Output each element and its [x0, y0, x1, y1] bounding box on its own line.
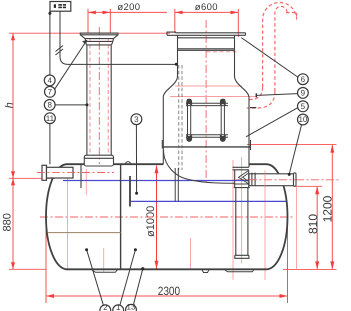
shoulder left: [163, 76, 177, 97]
tank centerline: [40, 216, 293, 218]
880 bottom arrow: [11, 262, 15, 269]
water level 1: [63, 180, 248, 182]
circle 3: [131, 114, 142, 125]
svg-text:7: 7: [48, 88, 53, 97]
tee chevron 2: [243, 173, 249, 181]
riser pipe right wall: [110, 45, 112, 155]
lid bottom line: [167, 34, 246, 36]
riser pipe left wall: [86, 45, 88, 155]
extension line x86: [85, 169, 87, 195]
svg-text:2: 2: [103, 303, 108, 311]
riser ring side right: [112, 39, 114, 45]
circle 11: [45, 113, 56, 124]
h dimension line: [12, 33, 14, 178]
h bottom arrow: [11, 171, 15, 178]
svg-text:5: 5: [301, 102, 306, 111]
leader line below circles to tank: [49, 124, 51, 165]
vent lower weld tick: [250, 107, 256, 109]
drop pipe foot: [235, 255, 249, 258]
inlet drop line: [80, 164, 82, 188]
svg-text:ø200: ø200: [117, 2, 140, 13]
svg-text:10: 10: [298, 115, 307, 124]
riser ring 1: [85, 38, 114, 40]
leader line from box (curved): [60, 11, 176, 64]
svg-text:6: 6: [301, 75, 306, 84]
circle 7: [45, 86, 56, 97]
leader to circle 9: [257, 94, 298, 96]
lid top line: [176, 32, 246, 34]
leader to bottom circle 1: [120, 250, 135, 306]
leader to bottom circle 2: [87, 250, 104, 306]
circle 4: [44, 75, 55, 86]
dot at end of curved leader: [175, 63, 178, 66]
outlet tee centerline x241: [241, 157, 243, 264]
lifting lug on tank top: [125, 162, 130, 165]
body left wall: [162, 97, 164, 164]
riser ring side left: [85, 39, 86, 45]
svg-text:13: 13: [127, 303, 136, 311]
inlet pipe centerline: [37, 172, 114, 174]
tank top right segment and right head: [249, 164, 288, 269]
tee left wall: [234, 170, 236, 188]
outlet pipe body: [249, 174, 294, 186]
clamp ring line 2: [178, 49, 235, 51]
svg-text:ø1000: ø1000: [145, 206, 157, 237]
water level 2: [130, 200, 287, 202]
o200 dimension: [88, 9, 167, 33]
right foot: [250, 140, 252, 150]
body right wall: [248, 97, 250, 167]
gooseneck end face: [286, 12, 297, 14]
cap right skirt: [114, 35, 119, 39]
neck rim under lid: [178, 37, 235, 39]
880 top arrow: [11, 178, 15, 185]
inlet centerline over pipe: [37, 172, 114, 174]
inlet flange: [42, 165, 47, 180]
hidden tube dashed right: [181, 65, 183, 170]
bolt head bottom-right: [220, 135, 226, 142]
svg-text:11: 11: [46, 114, 55, 123]
saddle support left: [92, 270, 118, 272]
left foot: [161, 140, 163, 149]
circle 8: [44, 100, 55, 111]
main baffle: [120, 164, 122, 268]
circle 10: [298, 114, 309, 125]
tank bottom left reference line: [9, 268, 46, 270]
svg-text:880: 880: [2, 213, 14, 231]
svg-text:9: 9: [301, 89, 306, 98]
tank bottom: [67, 268, 267, 270]
extension line x190: [190, 238, 192, 269]
outlet drop pipe right: [247, 188, 249, 256]
outlet drop pipe left: [235, 188, 237, 256]
gooseneck elbow outer: [247, 87, 263, 100]
gooseneck outer wall: [263, 3, 297, 88]
outlet pipe centerline: [236, 179, 339, 181]
saddle centerline x103: [103, 248, 105, 273]
svg-text:ø600: ø600: [195, 2, 218, 13]
body bottom flange: [162, 146, 250, 148]
drop tube wall 1: [174, 168, 176, 201]
circle 13 bottom: [126, 304, 137, 311]
lid left lip: [167, 32, 176, 35]
hidden tube dashed left: [178, 65, 180, 170]
gooseneck elbow inner: [247, 92, 275, 109]
tee right wall: [248, 170, 250, 188]
o1000 dimension: [156, 166, 158, 269]
break symbol: [56, 46, 64, 56]
svg-text:3: 3: [134, 115, 139, 124]
svg-text:4: 4: [47, 76, 52, 85]
leader from circle 3: [135, 125, 137, 194]
circle 6: [298, 74, 309, 85]
leader to circle 7: [54, 40, 87, 90]
leader from circle 10: [289, 125, 301, 174]
extension line x264: [264, 171, 266, 281]
left channel: [187, 99, 189, 141]
svg-text:2300: 2300: [158, 284, 181, 298]
tank shell left head: [46, 164, 85, 269]
label box text marks: [54, 4, 66, 8]
short baffle plate: [129, 176, 131, 207]
sludge line (brown): [48, 232, 121, 234]
riser cap plate: [80, 33, 118, 35]
o600 dimension: [175, 9, 239, 37]
svg-text:1: 1: [116, 303, 121, 311]
riser socket ring: [84, 157, 113, 159]
outlet branch socket: [251, 173, 253, 186]
svg-text:810: 810: [306, 214, 320, 234]
drop tube wall 2: [177, 168, 179, 201]
leader to circle 5: [246, 108, 298, 137]
gooseneck inner wall: [275, 6, 287, 91]
label box: [50, 2, 71, 12]
extension line x233: [232, 160, 234, 280]
ground reference line: [9, 32, 170, 34]
svg-text:8: 8: [47, 101, 52, 110]
tank top middle segment: [114, 163, 164, 165]
880 dimension line: [12, 178, 14, 269]
red line across riser y96.5: [170, 96, 256, 98]
circle 1 bottom: [113, 305, 124, 311]
right channel: [220, 99, 222, 141]
neck left wall: [177, 35, 179, 76]
h top arrow: [11, 33, 15, 40]
inlet invert reference line: [9, 177, 55, 179]
riser socket: [84, 155, 113, 166]
outlet centerline over pipe: [249, 179, 296, 181]
leader from circle 8: [55, 104, 87, 106]
leader to bottom circle 13: [133, 269, 142, 305]
lid right edge: [245, 33, 247, 36]
drain notch under bottom: [202, 270, 209, 273]
tee bottom collar: [234, 183, 250, 185]
riser ring 2: [86, 40, 113, 42]
tee chevron 1: [239, 171, 249, 184]
vent nozzle stub: [255, 93, 257, 97]
outlet pipe end cap: [294, 173, 297, 186]
o600 riser centerline: [205, 20, 207, 185]
circle 5: [298, 101, 309, 112]
bottom rail: [186, 134, 228, 136]
1200 dimension: [247, 145, 337, 270]
clamp ring line 1: [178, 48, 235, 50]
cap left skirt: [80, 35, 85, 39]
red line across riser y86: [175, 85, 242, 87]
circle 9: [298, 88, 309, 99]
shoulder right: [235, 76, 250, 97]
opening arc: [164, 150, 235, 183]
neck right wall: [234, 35, 236, 76]
svg-text:h: h: [3, 102, 15, 108]
inlet pipe body: [47, 167, 74, 178]
leader line from box (straight): [49, 11, 51, 75]
red dashed line in neck: [207, 51, 239, 53]
tee top rim: [233, 166, 249, 168]
riser ring 3: [86, 44, 111, 46]
top rail: [186, 102, 228, 104]
bolt head top-left: [186, 99, 192, 106]
saddle support right: [225, 270, 254, 272]
dot on leader: [48, 12, 51, 15]
bolt head top-right: [220, 99, 226, 106]
2300 dimension: [46, 217, 288, 303]
leader to circle 6: [241, 38, 297, 77]
810 dimension: [296, 186, 322, 269]
extension line x263 over pipe: [264, 174, 266, 186]
bolt head bottom-left: [186, 135, 192, 142]
circle 2 bottom: [100, 305, 111, 311]
svg-text:1200: 1200: [321, 195, 335, 222]
extension line x67: [67, 167, 69, 271]
extension line x292: [296, 186, 298, 269]
o200 riser hidden walls (red dashed): [90, 38, 108, 155]
o200 riser centerline: [98, 27, 100, 164]
